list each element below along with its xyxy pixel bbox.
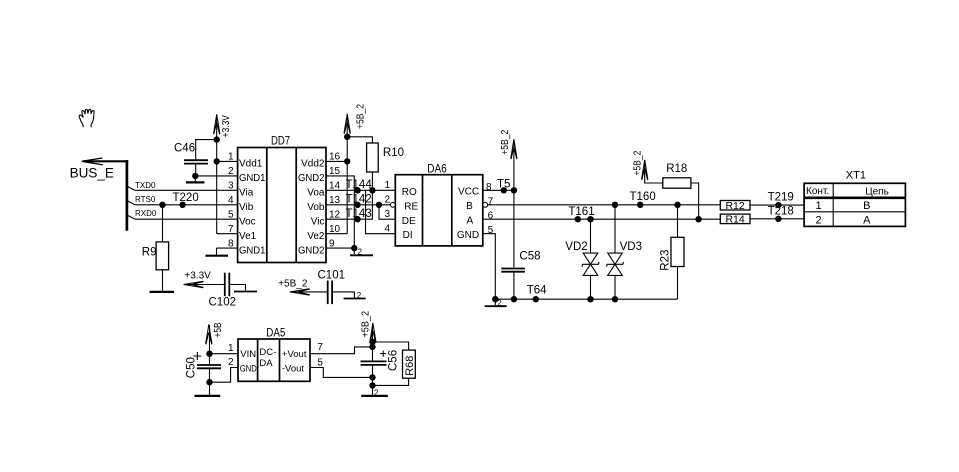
power +3.3V rail DD7 xyxy=(216,115,218,234)
svg-text:Via: Via xyxy=(239,188,254,199)
wire line A (DA6 pin6 to R14) xyxy=(483,218,721,220)
svg-text:VCC: VCC xyxy=(458,186,479,197)
svg-text:Ve2: Ve2 xyxy=(307,231,325,242)
wire bus horizontal xyxy=(84,160,128,162)
svg-text:Цепь: Цепь xyxy=(865,186,889,197)
wire gnd drop net2 xyxy=(494,299,496,305)
svg-text:R18: R18 xyxy=(666,163,687,175)
svg-text:T144: T144 xyxy=(346,179,373,191)
svg-text:6: 6 xyxy=(488,211,494,222)
svg-text:+5В_2: +5В_2 xyxy=(360,311,371,338)
power +3.3V arrow xyxy=(214,114,220,134)
wire DD7 pin16 stub xyxy=(326,160,347,162)
wire R68 bottom xyxy=(373,378,409,385)
wire Vob to RE (line B) xyxy=(326,204,390,206)
svg-text:+3.3V: +3.3V xyxy=(221,115,232,138)
wire C101 left xyxy=(290,291,327,293)
junction dot R9 on RTS0 xyxy=(159,202,165,208)
resistor R23 xyxy=(659,202,684,300)
svg-text:3: 3 xyxy=(384,209,390,220)
svg-text:DA5: DA5 xyxy=(266,326,285,340)
power +5B_2 rail DA5 out xyxy=(372,323,374,361)
R23 body xyxy=(671,237,684,266)
hand cursor xyxy=(79,109,94,127)
svg-text:VIN: VIN xyxy=(240,349,256,360)
svg-text:1: 1 xyxy=(228,343,234,354)
suppressor VD2 xyxy=(565,216,598,302)
junction dot RE-DE xyxy=(376,202,382,208)
svg-text:Конт.: Конт. xyxy=(806,186,829,197)
ground C46 xyxy=(186,181,205,183)
svg-text:DE: DE xyxy=(402,216,416,227)
wire bus vertical xyxy=(126,160,129,231)
svg-text:Vdd1: Vdd1 xyxy=(239,159,263,170)
svg-text:DI: DI xyxy=(403,230,413,241)
svg-text:R68: R68 xyxy=(404,356,416,376)
svg-text:RO: RO xyxy=(402,187,417,198)
wire DD7 pin8 ground drop xyxy=(216,248,218,255)
wire DD7 pin1 stub xyxy=(217,160,238,162)
svg-text:2: 2 xyxy=(357,291,362,300)
junction dot C50 bottom xyxy=(206,379,212,385)
svg-text:T142: T142 xyxy=(346,194,372,206)
svg-text:-Vout: -Vout xyxy=(282,364,305,375)
wire C102 left xyxy=(184,284,224,286)
wire RXD0 entry diagonal xyxy=(127,215,135,219)
junction dot R68 top tap xyxy=(369,339,375,345)
ground net2 bottom rail xyxy=(485,305,507,307)
svg-text:R12: R12 xyxy=(725,200,744,212)
IC DA6 xyxy=(384,161,493,246)
svg-text:R9: R9 xyxy=(142,246,157,258)
IC DA5 xyxy=(228,326,323,382)
svg-text:C102: C102 xyxy=(209,297,237,309)
wire R18 right xyxy=(691,183,699,219)
svg-text:2: 2 xyxy=(228,357,234,368)
svg-text:Vdd2: Vdd2 xyxy=(301,159,325,170)
pin 2 RE inversion circle xyxy=(390,202,395,207)
svg-text:4: 4 xyxy=(228,195,234,206)
wire Voa to RO (line A) xyxy=(326,189,395,191)
svg-text:3: 3 xyxy=(228,181,234,192)
junction dot line A x372 xyxy=(369,187,375,193)
svg-text:RXD0: RXD0 xyxy=(135,209,157,218)
svg-text:2: 2 xyxy=(374,388,379,397)
wire line B (DA6 pin7 to R12) xyxy=(488,204,721,206)
svg-text:2: 2 xyxy=(497,299,502,308)
wire DD7 pin8 stub xyxy=(217,247,238,249)
wire RXD0 xyxy=(135,218,238,220)
resistor R18 xyxy=(633,150,702,222)
svg-text:4: 4 xyxy=(384,223,390,234)
connector XT1 table xyxy=(804,169,905,226)
svg-text:T220: T220 xyxy=(173,192,199,204)
svg-text:5: 5 xyxy=(228,209,234,220)
power +5B arrow DA5 xyxy=(206,324,212,344)
svg-text:1: 1 xyxy=(815,200,821,212)
svg-text:GND1: GND1 xyxy=(239,245,266,256)
wire TXD0 xyxy=(135,189,238,191)
wire DA6 VCC stub xyxy=(483,189,514,191)
wire C46 top xyxy=(196,140,217,160)
junction dot VD3 bottom xyxy=(612,296,618,302)
ground C101 net2 xyxy=(344,298,366,300)
wire DA6 GND pin5 xyxy=(483,234,496,300)
wire DD7 pin15 stub + GND2 rail xyxy=(326,176,354,254)
resistor R9 xyxy=(142,205,174,292)
wire DA5 pin1 xyxy=(210,353,239,355)
svg-text:5: 5 xyxy=(317,358,323,369)
power +5B_2 rail DD7 right xyxy=(346,114,348,234)
svg-text:DD7: DD7 xyxy=(271,134,290,148)
junction dot R23 on line B xyxy=(674,202,680,208)
suppressor VD3 xyxy=(607,202,642,303)
svg-text:Ve1: Ve1 xyxy=(239,231,257,242)
svg-text:GND2: GND2 xyxy=(298,245,325,256)
C50 plus sign xyxy=(193,352,201,360)
svg-text:C50: C50 xyxy=(186,357,198,378)
svg-text:T160: T160 xyxy=(630,191,656,203)
svg-text:R10: R10 xyxy=(383,147,404,159)
svg-text:VD2: VD2 xyxy=(565,241,587,253)
bus arrow xyxy=(82,158,103,165)
wire R10 bottom xyxy=(371,172,373,190)
svg-text:2: 2 xyxy=(358,248,363,257)
wire Vic (line C) with corner up to line A xyxy=(326,190,372,219)
wire VD2 bottom xyxy=(590,275,592,299)
svg-text:A: A xyxy=(863,214,871,226)
VD3 symbol xyxy=(607,253,623,275)
C102 plates xyxy=(224,273,226,297)
wire C56 bottom xyxy=(372,366,374,395)
svg-text:T64: T64 xyxy=(527,285,547,297)
wire R9 top xyxy=(162,205,164,242)
svg-text:Voc: Voc xyxy=(239,216,256,227)
svg-text:+5В_2: +5В_2 xyxy=(356,104,367,129)
svg-text:8: 8 xyxy=(486,182,492,193)
svg-text:DA6: DA6 xyxy=(427,161,447,175)
node BUS_E xyxy=(82,158,128,231)
wire R23 bottom xyxy=(677,267,679,300)
svg-text:T219: T219 xyxy=(768,192,794,204)
svg-text:T218: T218 xyxy=(768,205,794,217)
svg-text:C101: C101 xyxy=(318,269,346,281)
power arrow left +3.3V xyxy=(184,281,204,287)
svg-text:7: 7 xyxy=(317,342,323,353)
power +5B_2 arrow DA5 xyxy=(370,323,376,343)
wire C46 bottom xyxy=(195,165,197,176)
junction dot VD2 on line A xyxy=(587,216,593,222)
svg-text:RE: RE xyxy=(404,202,418,213)
wire R10 top xyxy=(347,137,372,143)
junction dot VD2 bottom xyxy=(587,296,593,302)
test point T142 dot xyxy=(354,202,360,208)
ground C56 net2 xyxy=(361,395,388,397)
junction dot DD7 pin9 gnd xyxy=(351,245,357,251)
power +5B rail DA5 xyxy=(209,325,211,365)
svg-text:DC-: DC- xyxy=(259,347,276,358)
svg-text:+5В_2: +5В_2 xyxy=(278,278,308,289)
wire isolated ground rail (bottom) xyxy=(495,298,677,300)
power +5B_2 arrow R18 xyxy=(642,160,648,180)
svg-text:+5В_2: +5В_2 xyxy=(500,129,511,154)
test point T218 dot xyxy=(775,216,781,222)
ground R9 xyxy=(150,291,175,293)
R9 body xyxy=(156,242,169,270)
svg-text:+5В_2: +5В_2 xyxy=(633,150,644,175)
junction dot gnd rail left xyxy=(492,296,498,302)
power arrow left +5B_2 xyxy=(290,289,310,295)
R18 body xyxy=(663,178,691,188)
junction dot R18 on line A xyxy=(695,216,701,222)
junction dot C50 top xyxy=(206,351,212,357)
wire R18 left xyxy=(645,160,663,183)
wire VD3 bottom xyxy=(614,275,616,299)
wire RTS0 xyxy=(135,204,238,206)
power +5B_2 arrow DA6 xyxy=(511,139,517,159)
junction dot +Vout join xyxy=(369,344,375,350)
resistor R12 xyxy=(720,200,750,212)
svg-text:5: 5 xyxy=(488,225,494,236)
wire RTS0 entry diagonal xyxy=(127,201,135,205)
test point T5 dot xyxy=(501,187,507,193)
junction dot R10 top wire xyxy=(344,134,350,140)
C56 plates xyxy=(361,360,387,362)
wire TXD0 entry diagonal xyxy=(127,186,135,190)
wire VD2 top xyxy=(590,219,592,253)
wire DD7 pin10 stub xyxy=(326,233,347,235)
R10 body xyxy=(367,143,379,172)
junction dot VD3 on line B xyxy=(612,202,618,208)
resistor R14 xyxy=(720,214,750,226)
svg-text:+3.3V: +3.3V xyxy=(184,271,211,282)
junction dot R68 bottom join xyxy=(369,382,375,388)
svg-text:GND: GND xyxy=(457,230,479,241)
power +5B_2 rail DA6 xyxy=(513,140,515,268)
C56 plus sign xyxy=(380,351,386,357)
wire C101 right to ground xyxy=(333,292,355,298)
junction dot -Vout join xyxy=(369,374,375,380)
test point T143 dot xyxy=(354,216,360,222)
junction dot C46 bottom xyxy=(192,173,198,179)
svg-text:TXD0: TXD0 xyxy=(135,181,156,190)
wire R68 top xyxy=(373,342,409,350)
svg-text:2: 2 xyxy=(384,195,390,206)
wire DA5 -Vout pin5 xyxy=(310,368,373,378)
wire DD7 pin2 stub xyxy=(195,175,237,177)
C46 plates xyxy=(184,159,208,161)
svg-text:Voa: Voa xyxy=(307,188,325,199)
svg-text:Vob: Vob xyxy=(307,202,325,213)
junction dot VCC rail xyxy=(511,187,517,193)
test point T160 dot xyxy=(637,202,643,208)
svg-text:GND: GND xyxy=(240,364,257,375)
svg-text:C46: C46 xyxy=(174,142,195,154)
junction dot DD7 pin1 xyxy=(214,158,220,164)
svg-text:RTS0: RTS0 xyxy=(135,195,156,204)
ground DD7 pin8 xyxy=(206,255,229,257)
junction dot C46 top xyxy=(214,136,220,142)
svg-text:Vib: Vib xyxy=(239,202,254,213)
svg-text:B: B xyxy=(863,200,870,212)
wire C102 right to ground xyxy=(230,285,246,291)
wire R14 to XT1 xyxy=(750,218,804,220)
wire R12 to XT1 xyxy=(750,204,804,206)
wire R23 top xyxy=(677,205,679,238)
svg-text:Vic: Vic xyxy=(311,216,325,227)
power +5B_2 arrow DD7 xyxy=(344,114,350,134)
C50 plates xyxy=(197,364,221,366)
C101 plates xyxy=(327,281,329,305)
svg-text:C58: C58 xyxy=(519,250,540,262)
test point T144 dot xyxy=(354,187,360,193)
svg-text:7: 7 xyxy=(488,196,494,207)
test point T219 dot xyxy=(775,202,781,208)
resistor R10 xyxy=(347,137,404,191)
ground DD7 pin9 net2 xyxy=(350,254,373,256)
wire VD3 top xyxy=(614,205,616,253)
capacitor C102 xyxy=(184,271,258,309)
junction dot DD7 pin16 xyxy=(344,158,350,164)
wire DA5 +Vout pin7 xyxy=(310,347,373,354)
svg-text:1: 1 xyxy=(384,180,390,191)
wire line A to DI drop xyxy=(366,190,396,233)
resistor R68 xyxy=(403,350,417,378)
wire C58 bottom xyxy=(513,273,515,300)
wire C50 bottom xyxy=(209,369,211,395)
svg-text:C56: C56 xyxy=(388,350,400,371)
capacitor C56 xyxy=(361,350,400,397)
svg-text:2: 2 xyxy=(815,214,821,226)
test point T220 dot xyxy=(179,202,185,208)
ground C50 xyxy=(195,395,221,397)
svg-text:XT1: XT1 xyxy=(846,169,866,181)
junction dot C58 bottom xyxy=(511,296,517,302)
wire DA5 pin2 xyxy=(210,368,239,383)
wire DD7 pin9 stub xyxy=(326,247,354,249)
test point T161 dot xyxy=(575,216,581,222)
svg-text:A: A xyxy=(466,216,473,227)
wire DD7 pin7 stub xyxy=(217,233,238,235)
capacitor C58 xyxy=(501,250,540,299)
IC DD7 xyxy=(228,134,341,263)
capacitor C46 xyxy=(174,140,217,183)
wire R9 bottom xyxy=(162,270,164,291)
svg-text:DA: DA xyxy=(259,358,273,369)
svg-text:+5В: +5В xyxy=(213,322,224,337)
svg-text:B: B xyxy=(466,201,473,212)
test point T64 dot xyxy=(533,296,539,302)
wire RE-DE tie xyxy=(379,205,395,219)
wire C46 ground drop xyxy=(194,176,196,182)
svg-text:VD3: VD3 xyxy=(620,241,642,253)
svg-text:GND2: GND2 xyxy=(298,173,325,184)
capacitor C101 xyxy=(278,269,366,304)
svg-text:GND1: GND1 xyxy=(239,173,266,184)
svg-text:+Vout: +Vout xyxy=(282,349,307,360)
VD2 symbol xyxy=(582,253,598,275)
svg-text:R23: R23 xyxy=(659,250,671,271)
capacitor C50 xyxy=(186,352,221,396)
svg-text:BUS_E: BUS_E xyxy=(70,165,114,180)
ground C102 xyxy=(234,291,257,293)
pin 7 B inversion circle xyxy=(483,202,488,207)
svg-text:R14: R14 xyxy=(725,214,744,226)
svg-text:T143: T143 xyxy=(346,208,372,220)
